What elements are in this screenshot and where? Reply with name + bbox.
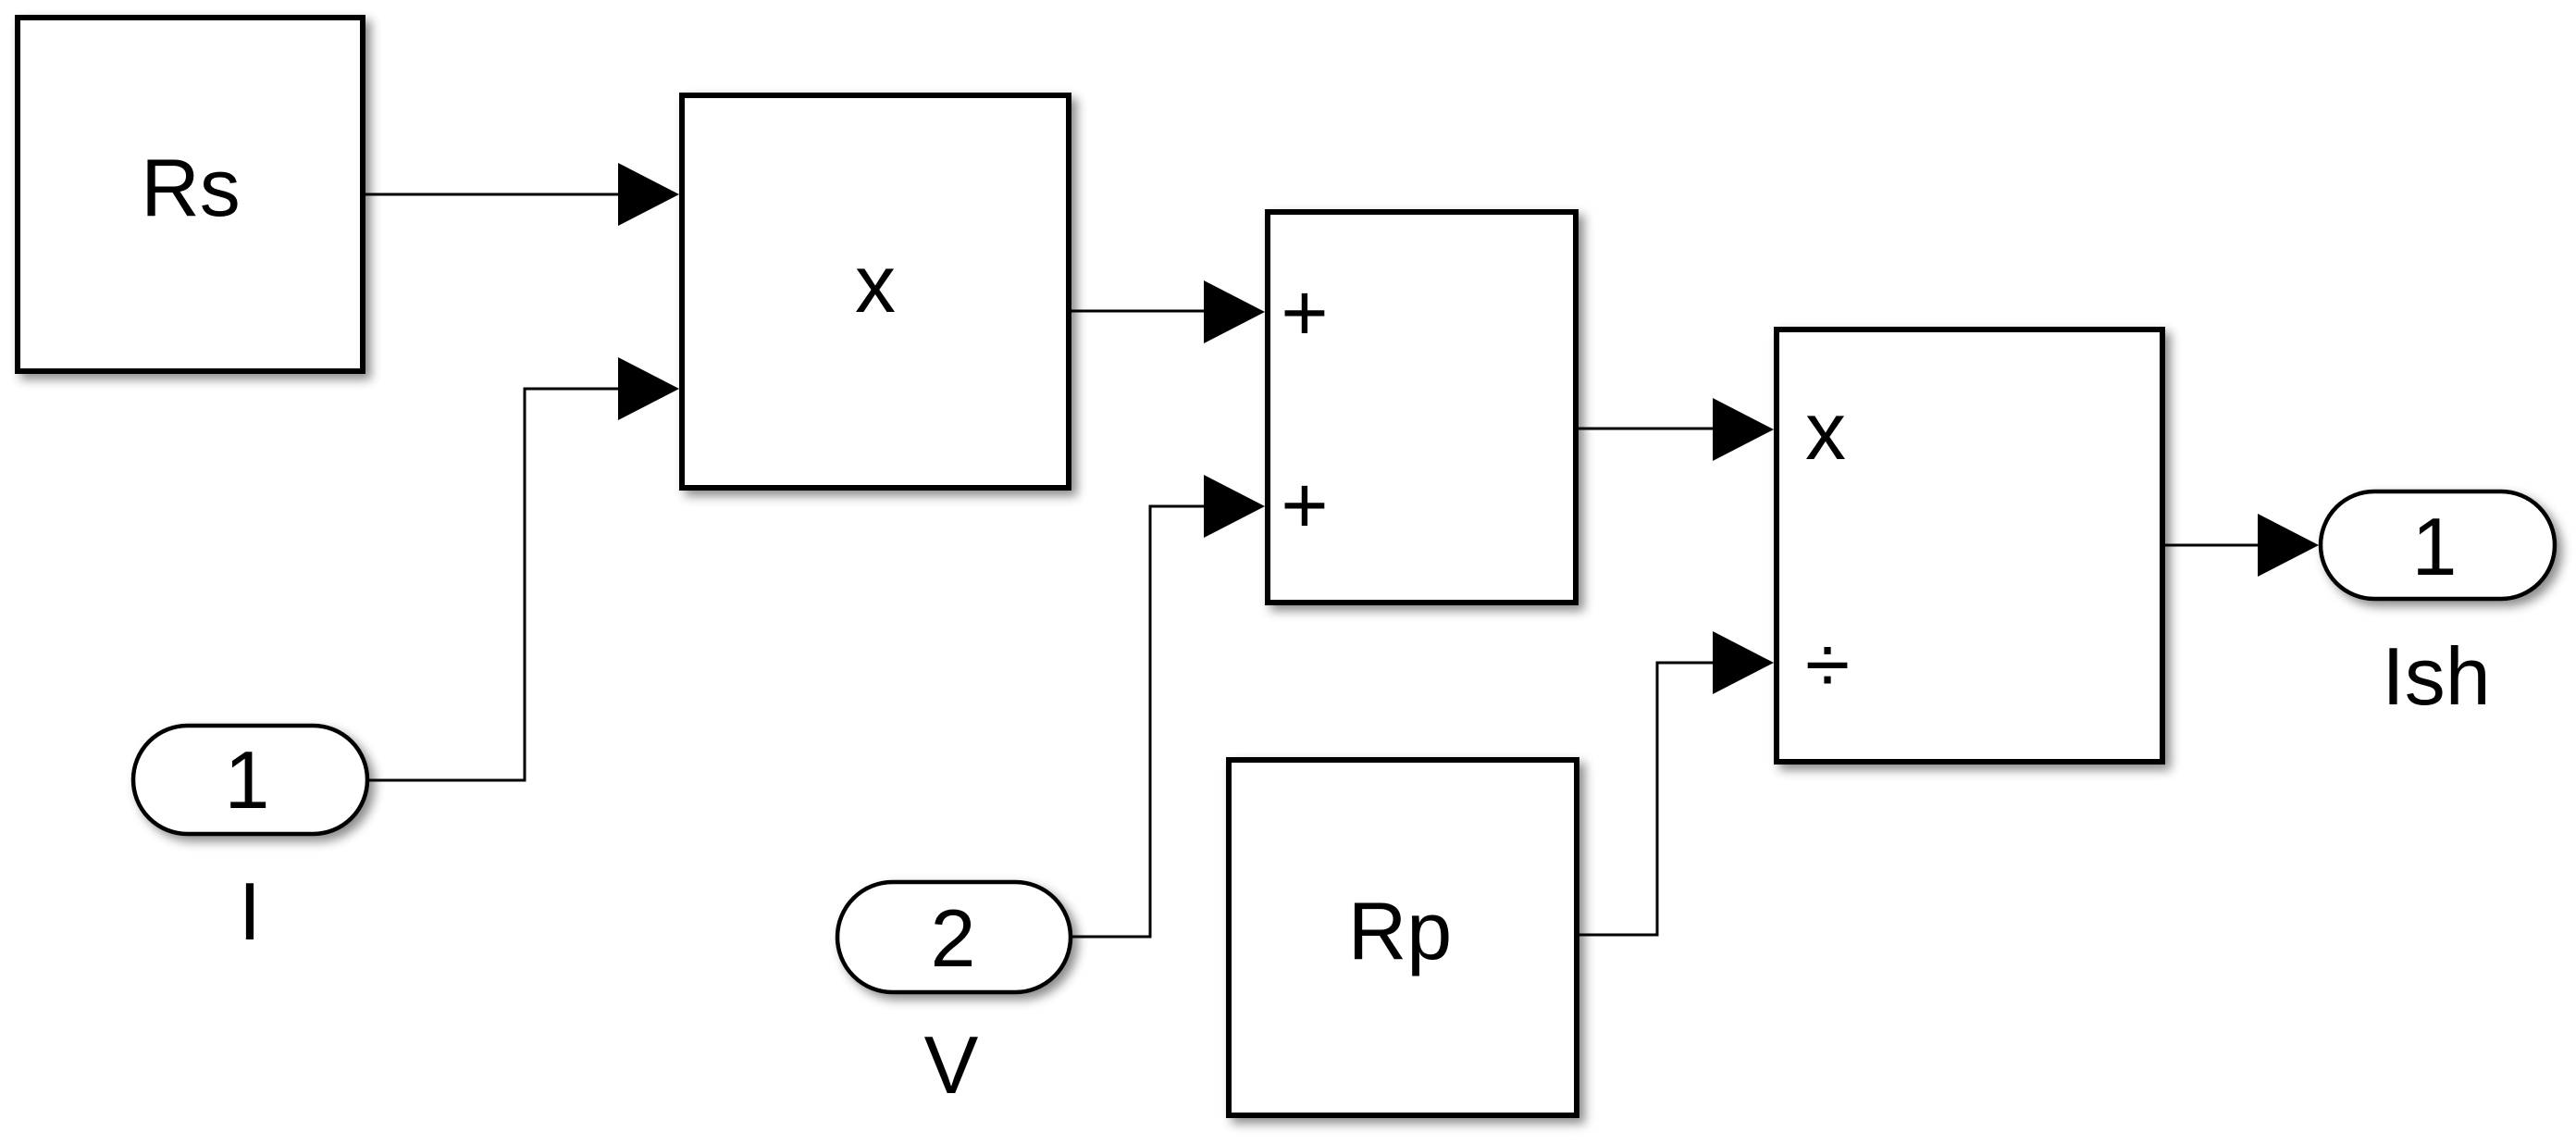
svg-text:Rp: Rp <box>1348 885 1453 976</box>
svg-text:Rs: Rs <box>141 142 241 233</box>
svg-text:2: 2 <box>931 892 976 984</box>
svg-text:I: I <box>239 865 261 957</box>
svg-text:1: 1 <box>2412 501 2458 592</box>
svg-text:Ish: Ish <box>2382 630 2490 722</box>
svg-text:x: x <box>1805 385 1846 477</box>
svg-text:V: V <box>924 1019 979 1111</box>
svg-text:+: + <box>1281 459 1328 551</box>
svg-text:x: x <box>855 238 896 330</box>
svg-text:+: + <box>1281 267 1328 358</box>
svg-text:1: 1 <box>225 734 270 826</box>
svg-text:÷: ÷ <box>1805 618 1850 710</box>
